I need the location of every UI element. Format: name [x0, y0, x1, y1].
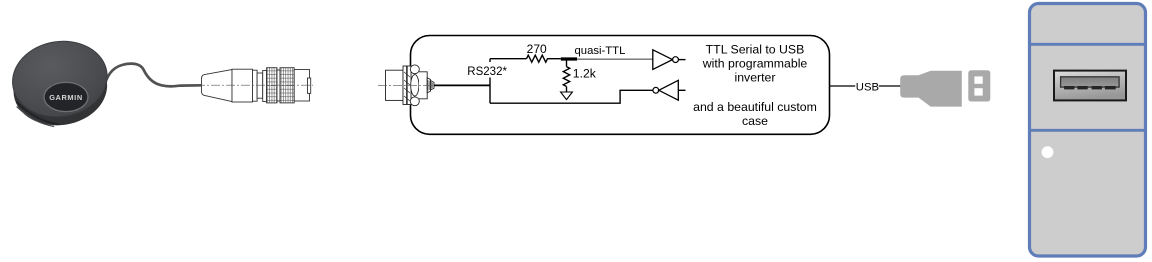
- svg-text:quasi-TTL: quasi-TTL: [575, 45, 626, 57]
- svg-text:1.2k: 1.2k: [573, 67, 597, 81]
- svg-text:GARMIN: GARMIN: [49, 93, 83, 102]
- svg-text:with programmable: with programmable: [702, 57, 808, 71]
- svg-text:case: case: [742, 114, 768, 128]
- svg-text:and a beautiful custom: and a beautiful custom: [693, 100, 817, 114]
- svg-text:RS232*: RS232*: [467, 66, 507, 78]
- svg-text:270: 270: [527, 42, 547, 56]
- svg-text:USB: USB: [856, 82, 879, 94]
- svg-text:inverter: inverter: [734, 70, 775, 84]
- svg-text:TTL Serial to USB: TTL Serial to USB: [706, 43, 805, 57]
